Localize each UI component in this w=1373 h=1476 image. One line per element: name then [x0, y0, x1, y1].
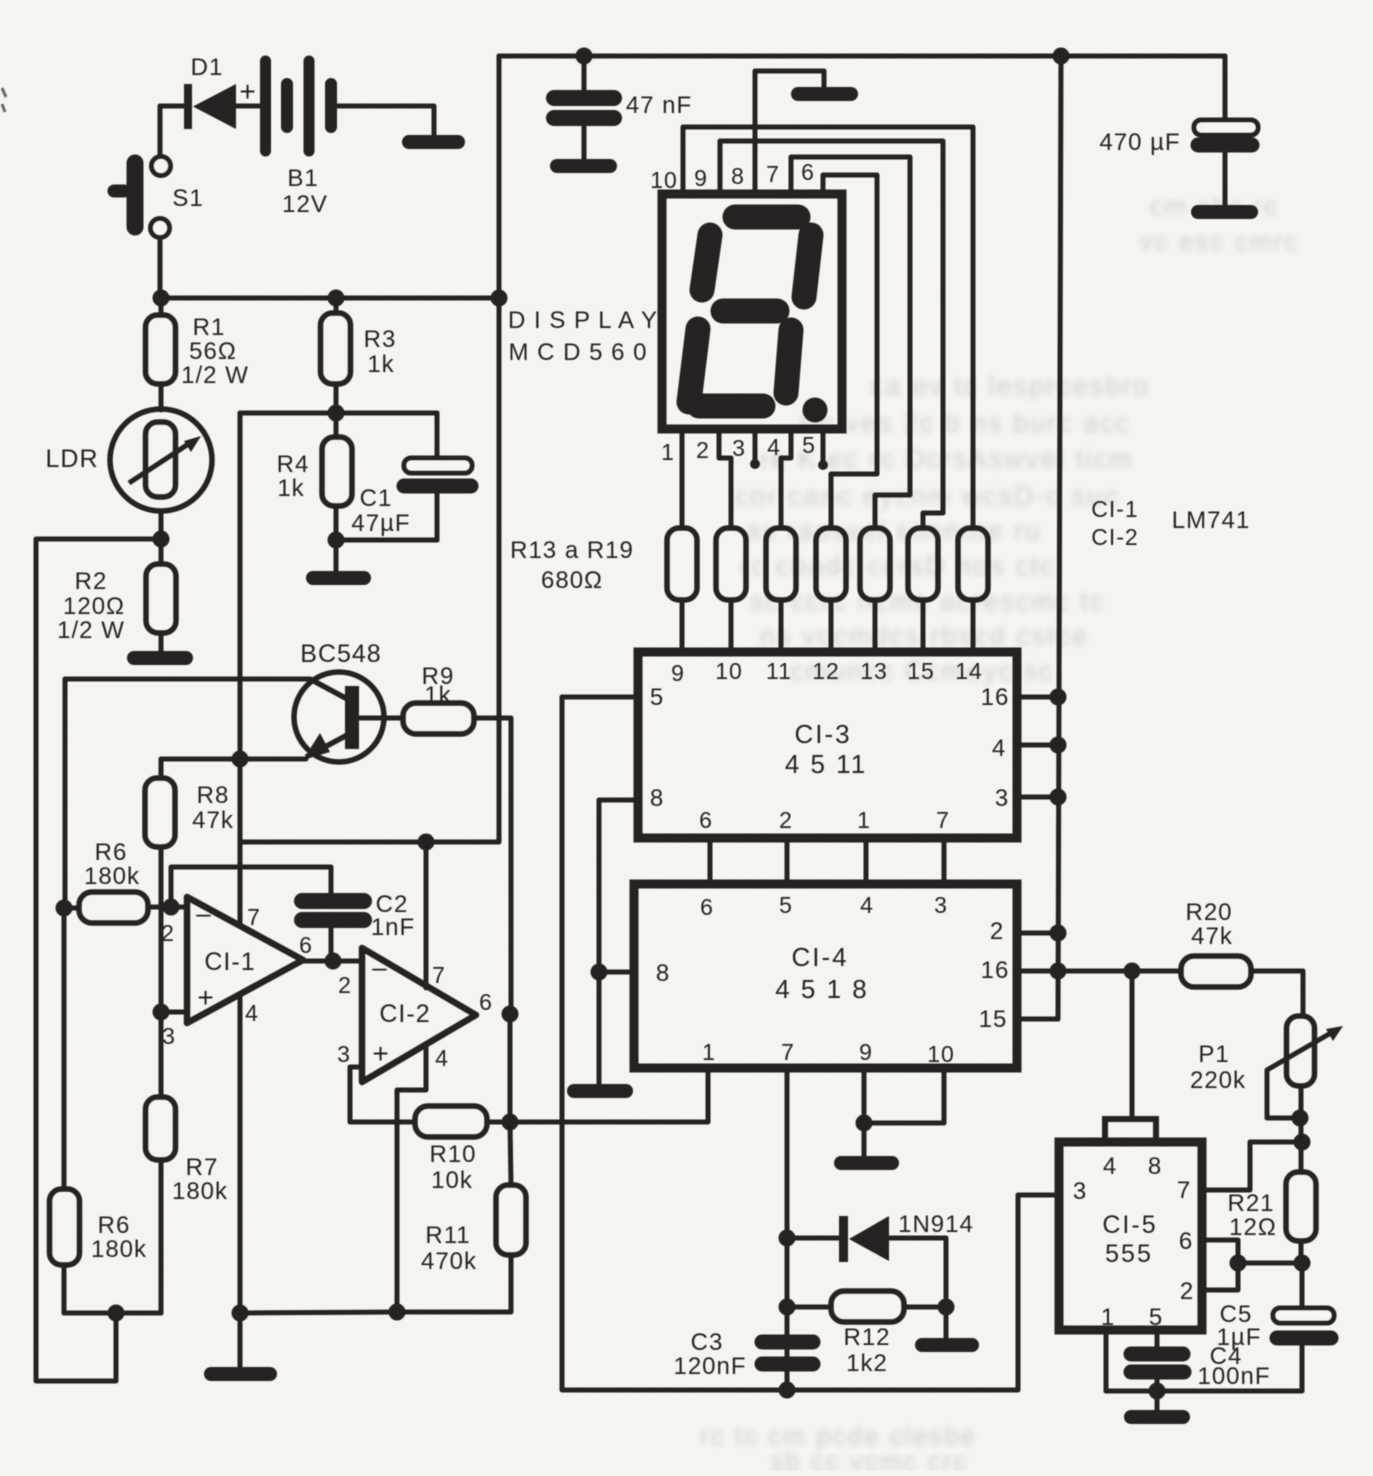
- label R13 a R19 680ohm: [510, 537, 634, 594]
- svg-text:CI-2: CI-2: [1091, 524, 1138, 550]
- ground (1N914/R12): [922, 1338, 972, 1352]
- wire CI-2 out to R10/R11: [508, 1014, 513, 1122]
- svg-text:2: 2: [779, 807, 793, 833]
- wire CI-2 pin7: [424, 842, 429, 988]
- node pin6/2: [1230, 1255, 1247, 1272]
- wire R4/C1 bottom: [336, 538, 437, 543]
- svg-text:10: 10: [715, 658, 743, 684]
- node pin4: [1050, 737, 1067, 754]
- svg-text:3: 3: [337, 1041, 351, 1067]
- svg-text:1k: 1k: [277, 475, 304, 502]
- resistor R3 1k: [321, 298, 397, 413]
- node C3 bottom rail: [779, 1382, 796, 1399]
- wire CI-2 pin4: [397, 1046, 426, 1312]
- svg-text:–: –: [196, 898, 211, 928]
- resistor R21 12ohm: [1227, 1142, 1316, 1263]
- potentiometer P1 220k: [1190, 1016, 1343, 1142]
- node R4/C1: [328, 532, 345, 549]
- capacitor C3 120nF: [673, 1329, 813, 1380]
- node +V rail: [491, 290, 508, 307]
- capacitor C1 47uF: [351, 413, 472, 540]
- svg-text:180k: 180k: [172, 1178, 228, 1205]
- svg-text:R1: R1: [193, 314, 226, 341]
- wire CI-4 pin7 down: [785, 1068, 790, 1390]
- svg-text:5: 5: [650, 684, 664, 711]
- IC U3 CI-3 4511: [638, 652, 1017, 838]
- resistor R12 1k2: [787, 1291, 946, 1377]
- display label: [508, 307, 658, 366]
- svg-text:vc esc cmrc: vc esc cmrc: [1140, 226, 1299, 256]
- svg-text:15: 15: [907, 658, 935, 684]
- stub display pin5: [821, 429, 826, 464]
- resistor R6 180k (lower): [50, 908, 148, 1313]
- wire CI-4 pin16 to R20: [1017, 969, 1181, 974]
- node CI-1 pin2: [163, 899, 180, 916]
- node +V left: [153, 290, 170, 307]
- svg-text:R7: R7: [186, 1154, 219, 1181]
- svg-text:R13 a R19: R13 a R19: [510, 537, 634, 564]
- LDR: [45, 409, 212, 511]
- svg-text:C3: C3: [691, 1329, 724, 1356]
- capacitor C 47nF: [554, 56, 692, 160]
- wire CI-1 supply vertical x=240: [238, 413, 243, 925]
- svg-text:re K ec rc DcrsAswvel tic: re K ec rc DcrsAswvel ticm: [760, 444, 1133, 474]
- svg-text:3: 3: [162, 1023, 176, 1049]
- svg-text:8: 8: [656, 960, 670, 987]
- wire CI-3 pin3: [1017, 795, 1058, 800]
- svg-text:+: +: [197, 982, 214, 1013]
- svg-text:2: 2: [696, 437, 710, 463]
- wire R6/R7 bottoms: [64, 1311, 161, 1316]
- svg-text:Pc ves 2c b ns burc acc: Pc ves 2c b ns burc acc: [800, 408, 1131, 438]
- wires CI-3 to CI-4: [708, 838, 713, 884]
- svg-text:10: 10: [650, 167, 678, 193]
- ground (R2): [134, 651, 186, 665]
- svg-text:1: 1: [857, 807, 871, 833]
- resistor R11 470k: [397, 1122, 526, 1312]
- ground (CI-4 pin9): [841, 1156, 892, 1170]
- svg-text:11: 11: [766, 658, 792, 684]
- node pin3: [1050, 789, 1067, 806]
- node pin8: [591, 964, 608, 981]
- wire display pin4 to R15: [781, 429, 791, 528]
- node diode/CI-4 pin7: [779, 1230, 796, 1247]
- svg-text:15: 15: [979, 1006, 1008, 1033]
- ground (470uF): [1198, 205, 1251, 219]
- resistor R2 120ohm: [57, 539, 176, 655]
- svg-text:2: 2: [990, 918, 1004, 945]
- wire CI-4 pin8: [599, 970, 634, 975]
- svg-text:7: 7: [247, 904, 261, 930]
- IC U4 CI-4 4518: [634, 884, 1017, 1068]
- svg-text:P1: P1: [1198, 1041, 1229, 1068]
- node R21/C5: [1294, 1255, 1311, 1272]
- svg-text:5: 5: [779, 892, 793, 918]
- wire +V horizontal bus: [160, 296, 499, 301]
- wire emitter to R8 node: [240, 757, 306, 762]
- stub display pin3: [753, 429, 758, 463]
- wire D1 to S1: [158, 106, 163, 156]
- resistor R14 680ohm: [716, 528, 746, 600]
- wire 555 pin6/pin2 tie: [1202, 1240, 1238, 1290]
- resistor R6 180k (upper): [64, 839, 187, 923]
- svg-text:M C D 5 6 0: M C D 5 6 0: [508, 339, 647, 366]
- svg-text:B1: B1: [287, 165, 318, 192]
- svg-text:120nF: 120nF: [673, 1353, 746, 1380]
- IC U5 CI-5 555: [1059, 1119, 1202, 1331]
- node CI-2 output: [502, 1006, 519, 1023]
- wire display pin2 to R14: [719, 429, 731, 528]
- svg-text:5: 5: [1149, 1304, 1163, 1331]
- ground (CI-3/CI-4 pin8): [574, 1084, 626, 1098]
- wire CI-3 pin4: [1017, 743, 1058, 748]
- svg-text:16: 16: [981, 957, 1010, 984]
- svg-text:470 µF: 470 µF: [1099, 129, 1180, 156]
- node pin2: [1050, 925, 1067, 942]
- svg-text:R12: R12: [843, 1324, 890, 1351]
- ground (display pin8): [798, 87, 851, 101]
- svg-text:–: –: [372, 952, 387, 982]
- svg-text:12: 12: [812, 658, 840, 684]
- svg-text:14: 14: [955, 658, 983, 684]
- svg-text:1/2 W: 1/2 W: [57, 617, 125, 644]
- svg-text:7: 7: [936, 807, 950, 833]
- svg-text:R6: R6: [95, 839, 128, 866]
- wire CI-4 pin15: [1017, 1017, 1058, 1022]
- svg-text:BC548: BC548: [300, 640, 381, 668]
- svg-text:3: 3: [995, 785, 1009, 812]
- wire display pin10 to R19: [683, 127, 973, 528]
- svg-text:R6: R6: [98, 1212, 131, 1239]
- node pin16/555 supply: [1124, 963, 1141, 980]
- display top pin numbers 10 9 8 7 6: [650, 159, 815, 193]
- wire CI-4 pin2: [1017, 931, 1058, 936]
- node R12 left: [779, 1299, 796, 1316]
- svg-text:6: 6: [700, 894, 714, 920]
- diode D1: [160, 54, 261, 129]
- svg-text:680Ω: 680Ω: [541, 567, 603, 594]
- resistor R16 680ohm: [816, 528, 846, 600]
- wire R3 node to CI-1 pin7 rail and C1: [240, 411, 437, 416]
- svg-text:4: 4: [992, 735, 1006, 762]
- ground (555/C4): [1131, 1410, 1183, 1424]
- svg-text:sb cc vcmc crc: sb cc vcmc crc: [770, 1446, 968, 1471]
- wire display pin1 to R13: [680, 429, 685, 528]
- node R10/CI-4 pin1: [502, 1114, 519, 1131]
- label CI-1 CI-2 LM741: [1091, 496, 1250, 550]
- svg-text:4 5 11: 4 5 11: [785, 749, 867, 779]
- resistor R20 47k: [1181, 899, 1303, 1016]
- wire feedback C2 loop: [171, 867, 331, 907]
- svg-text:4: 4: [435, 1045, 449, 1071]
- node R11/pin4 ground line: [389, 1304, 406, 1321]
- svg-text:1: 1: [661, 439, 675, 465]
- svg-text:12V: 12V: [282, 191, 328, 218]
- svg-text:555: 555: [1105, 1240, 1153, 1268]
- wire CI-2 pin3 jog: [350, 1067, 415, 1122]
- svg-text:5: 5: [802, 432, 816, 458]
- svg-text:CI-2: CI-2: [379, 1000, 430, 1028]
- svg-text:10: 10: [927, 1041, 955, 1067]
- wire R10 node to CI-4 pin1: [510, 1068, 708, 1122]
- svg-text:CI-5: CI-5: [1102, 1211, 1157, 1239]
- svg-text:16: 16: [981, 684, 1010, 711]
- svg-text:LM741: LM741: [1172, 507, 1250, 534]
- svg-text:+: +: [372, 1038, 389, 1069]
- wire CI-1 pin4 to ground line: [238, 995, 243, 1313]
- svg-text:47 nF: 47 nF: [626, 92, 692, 119]
- wire CI-4 pin9/pin10 to ground: [862, 1068, 867, 1156]
- node supply/CI-2 pin7: [418, 834, 435, 851]
- svg-text:CI-3: CI-3: [794, 719, 851, 749]
- svg-text:D1: D1: [191, 54, 224, 81]
- svg-text:8: 8: [650, 785, 664, 812]
- svg-text:4: 4: [245, 1000, 259, 1026]
- resistor R1 56ohm: [146, 298, 249, 410]
- wire pin6 node to R21/C5: [1238, 1261, 1302, 1266]
- svg-text:13: 13: [860, 658, 888, 684]
- capacitor C5 1uF: [1106, 1263, 1334, 1391]
- resistor R8 47k: [145, 759, 240, 1097]
- node pin16/rail: [1050, 963, 1067, 980]
- display MCD560 outline: [662, 194, 842, 429]
- ground (op-amps): [211, 1367, 270, 1381]
- node pin9/10: [856, 1115, 873, 1132]
- wire 555 pin7 to R21: [1202, 1142, 1301, 1190]
- wire right rail x=1058: [1058, 56, 1061, 1019]
- svg-text:47k: 47k: [192, 807, 234, 834]
- svg-text:8: 8: [731, 163, 745, 189]
- svg-text:6: 6: [699, 807, 713, 833]
- resistor R9 1k: [360, 663, 511, 1014]
- svg-text:180k: 180k: [91, 1236, 147, 1263]
- svg-text:S1: S1: [172, 185, 203, 212]
- svg-text:1k: 1k: [424, 682, 451, 709]
- svg-text:470k: 470k: [421, 1248, 477, 1275]
- capacitor C 470uF: [1099, 56, 1258, 207]
- svg-text:R20: R20: [1185, 899, 1232, 926]
- svg-text:3: 3: [1073, 1178, 1087, 1205]
- wire display pin9 to R18: [720, 141, 943, 528]
- ground (R4/C1): [313, 571, 364, 585]
- display 7-segment digit: [689, 217, 828, 423]
- svg-text:CI-1: CI-1: [204, 948, 255, 976]
- resistor R13 680ohm: [667, 528, 697, 600]
- ground (47nF): [557, 159, 610, 173]
- node C4/ground run: [1149, 1383, 1166, 1400]
- switch S1: [114, 157, 204, 238]
- svg-text:9: 9: [671, 660, 685, 686]
- svg-text:rc cbadc ccrsD nos ctc: rc cbadc ccrsD nos ctc: [740, 551, 1056, 581]
- svg-text:6: 6: [801, 159, 815, 185]
- resistor R10 10k: [415, 1106, 510, 1194]
- svg-text:4 5 1 8: 4 5 1 8: [775, 974, 869, 1004]
- svg-text:1: 1: [702, 1039, 716, 1065]
- svg-text:2: 2: [338, 972, 352, 998]
- svg-text:3: 3: [732, 435, 746, 461]
- node P1 wiper: [1292, 1110, 1309, 1127]
- wire display pin6 to R16: [823, 175, 877, 528]
- svg-text:1k: 1k: [367, 351, 394, 378]
- svg-text:12Ω: 12Ω: [1229, 1214, 1277, 1241]
- svg-text:R11: R11: [425, 1222, 470, 1249]
- svg-text:9: 9: [694, 165, 708, 191]
- capacitor C4 100nF: [1131, 1330, 1271, 1410]
- svg-text:+: +: [239, 76, 256, 107]
- node ground line CI-1 pin4: [232, 1305, 249, 1322]
- wire +12V top rail: [499, 54, 1225, 59]
- node emitter/R8: [232, 751, 249, 768]
- svg-text:7: 7: [766, 161, 780, 187]
- wire CI-3 pin16: [1017, 695, 1058, 700]
- wire S1 to +V node: [158, 238, 163, 298]
- svg-text:CI-4: CI-4: [791, 942, 848, 972]
- svg-text:7: 7: [1177, 1177, 1191, 1204]
- node R12 right: [938, 1299, 955, 1316]
- node R6 left: [56, 900, 73, 917]
- svg-text:D I S P L A Y: D I S P L A Y: [508, 307, 658, 334]
- svg-text:7: 7: [432, 962, 446, 988]
- resistor R17 680ohm: [860, 528, 890, 600]
- svg-text:6: 6: [299, 932, 313, 958]
- svg-text:47k: 47k: [1191, 923, 1233, 950]
- node 47nF tap: [576, 48, 593, 65]
- svg-text:120Ω: 120Ω: [63, 593, 125, 620]
- wire LDR to node: [159, 511, 164, 539]
- wire CI-3 pin8 / CI-4 pin8 to ground: [599, 800, 638, 1084]
- wire node to left rail: [36, 539, 161, 1381]
- wire display pin8 to ground: [755, 71, 824, 194]
- wire +V rail x=499 down to op-amp supply line: [240, 56, 499, 842]
- node R6/R7 divider: [108, 1305, 125, 1322]
- wire CI-1 output: [303, 959, 362, 964]
- svg-text:1k2: 1k2: [846, 1350, 888, 1377]
- node R3/R4: [328, 405, 345, 422]
- wire CI-3 pin5 loop to 555 pin3: [562, 697, 1059, 1390]
- svg-text:R10: R10: [429, 1141, 476, 1168]
- node +V R3: [328, 290, 345, 307]
- svg-text:2: 2: [1180, 1278, 1194, 1305]
- diode D2 1N914: [787, 1211, 974, 1338]
- svg-text:180k: 180k: [84, 863, 140, 890]
- svg-text:R3: R3: [364, 326, 397, 353]
- wire collector to left rail: [65, 679, 310, 908]
- node right rail tap: [1053, 48, 1070, 65]
- svg-text:7: 7: [781, 1039, 795, 1065]
- op-amp U1 CI-1: [161, 897, 313, 1049]
- svg-text:LDR: LDR: [45, 445, 98, 473]
- svg-text:2: 2: [161, 920, 175, 946]
- svg-text:9: 9: [859, 1039, 873, 1065]
- wire display pin7 to R17: [791, 157, 910, 528]
- resistor R19 680ohm: [958, 528, 988, 600]
- svg-text:4: 4: [767, 434, 781, 460]
- svg-text:6: 6: [479, 989, 493, 1015]
- node pin16: [1050, 689, 1067, 706]
- svg-text:1N914: 1N914: [898, 1211, 974, 1238]
- svg-text:4: 4: [860, 892, 874, 918]
- wire CI-1 pin3: [161, 1010, 187, 1015]
- svg-text:C1: C1: [360, 485, 393, 512]
- svg-text:8: 8: [1148, 1153, 1162, 1180]
- resistor R7 180k: [146, 1097, 229, 1313]
- svg-text:220k: 220k: [1190, 1067, 1246, 1094]
- ground (battery): [409, 135, 458, 149]
- node R21 top: [1294, 1134, 1311, 1151]
- wire to ground R4: [334, 540, 339, 572]
- svg-text:3: 3: [934, 892, 948, 918]
- node pin3/R7: [153, 1004, 170, 1021]
- wire battery to ground: [331, 106, 434, 137]
- display bottom pin numbers 1 2 3 4 5: [661, 432, 816, 465]
- svg-text:47µF: 47µF: [351, 510, 410, 537]
- capacitor C2 1nF: [302, 891, 415, 961]
- svg-text:1/2 W: 1/2 W: [181, 362, 249, 389]
- svg-text:1: 1: [1101, 1304, 1115, 1331]
- node C2/output: [325, 953, 342, 970]
- wire ground line: [240, 1312, 397, 1313]
- svg-text:56Ω: 56Ω: [189, 338, 237, 365]
- resistor R18 680ohm: [908, 528, 938, 600]
- svg-text:100nF: 100nF: [1197, 1363, 1270, 1390]
- svg-text:6: 6: [1179, 1228, 1193, 1255]
- svg-text:R21: R21: [1227, 1190, 1274, 1217]
- wire 555 pin1 to common: [1104, 1330, 1109, 1391]
- svg-text:R8: R8: [197, 782, 230, 809]
- resistor R15 680ohm: [766, 528, 796, 600]
- svg-text:1nF: 1nF: [371, 914, 415, 941]
- op-amp U2 CI-2: [337, 948, 493, 1082]
- wire 555 supply from R20 node: [1130, 971, 1135, 1119]
- svg-text:R4: R4: [277, 451, 310, 478]
- node LDR/R2: [153, 531, 170, 548]
- transistor Q1 BC548: [294, 640, 384, 762]
- svg-text:R2: R2: [75, 568, 108, 595]
- resistor R4 1k: [277, 413, 352, 540]
- svg-text:10k: 10k: [431, 1167, 473, 1194]
- wire to ground bar: [238, 1313, 243, 1369]
- svg-text:4: 4: [1103, 1153, 1117, 1180]
- svg-text:CI-1: CI-1: [1091, 496, 1138, 522]
- battery B1 12V: [266, 61, 332, 218]
